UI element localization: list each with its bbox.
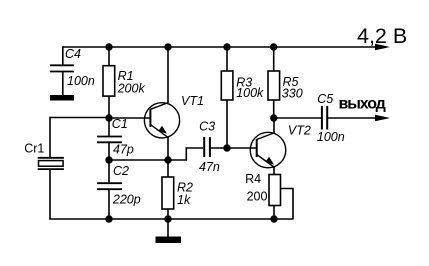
transistor VT2 emitter line xyxy=(257,155,274,168)
wire top supply rail xyxy=(63,46,383,48)
wire C1 to mid node xyxy=(108,142,110,160)
svg-text:C4: C4 xyxy=(65,47,81,61)
wire C4 to ground xyxy=(62,72,64,96)
svg-text:1k: 1k xyxy=(177,193,191,207)
resistor R1 xyxy=(103,66,115,96)
node dot rail/VT1 collector xyxy=(164,43,171,50)
transistor VT2 circle xyxy=(250,132,286,168)
capacitor C3 xyxy=(204,137,210,157)
resistor R4 xyxy=(269,175,281,206)
svg-text:VT1: VT1 xyxy=(181,94,204,108)
wire base node to VT1 base xyxy=(109,117,150,119)
transistor VT1 base bar xyxy=(149,109,151,127)
wire base node down to C1 xyxy=(108,118,110,137)
node dot rail/R3 xyxy=(223,43,230,50)
svg-text:100n: 100n xyxy=(317,130,345,144)
node dot R3/base junction xyxy=(223,144,230,151)
wire collector node to C5 xyxy=(274,117,321,119)
resistor R3 xyxy=(221,71,233,100)
wire C3 to VT2 base xyxy=(210,147,257,149)
resistor R2 xyxy=(162,177,174,209)
wire R1 branch from rail xyxy=(108,47,110,66)
VT2 emitter arrowhead xyxy=(265,157,274,165)
svg-text:C2: C2 xyxy=(113,164,129,178)
wire R5 to collector node xyxy=(273,100,275,118)
wire R2 to bottom rail xyxy=(167,209,169,219)
node dot R2/bottom rail xyxy=(164,215,171,222)
wire Cr1 to bottom rail xyxy=(50,169,109,219)
wire VT1 emitter down xyxy=(167,138,169,161)
ground bar main xyxy=(156,237,182,244)
wire R4 to bottom rail xyxy=(273,206,275,220)
wire mid node down to C2 xyxy=(108,160,110,183)
wire bottom rail to ground xyxy=(167,219,169,237)
capacitor C5 xyxy=(322,106,327,130)
svg-text:47n: 47n xyxy=(199,160,220,174)
wire C5 to output arrow xyxy=(327,117,383,119)
ground bar for C4 xyxy=(50,95,74,101)
node dot base node C1 xyxy=(105,114,112,121)
node dot VT2 collector xyxy=(270,114,277,121)
wire VT2 collector to node xyxy=(273,118,275,133)
wire C1/C2 junction to emitter node xyxy=(109,159,168,161)
node dot C1/C2 junction xyxy=(105,156,112,163)
wire crystal branch down to Cr1 xyxy=(49,117,51,158)
svg-text:C3: C3 xyxy=(199,120,215,134)
svg-text:100k: 100k xyxy=(236,86,264,100)
wire emitter node to R2 xyxy=(167,160,169,177)
wire R3 branch from rail xyxy=(226,47,228,71)
wire C4 branch from rail xyxy=(62,46,64,65)
svg-text:200k: 200k xyxy=(117,82,146,96)
node dot rail/R5 xyxy=(270,43,277,50)
svg-text:Cr1: Cr1 xyxy=(24,141,44,155)
transistor VT1 collector line xyxy=(150,103,168,110)
svg-text:330: 330 xyxy=(282,86,303,100)
svg-text:R4: R4 xyxy=(245,172,261,186)
R4 tap wire to bottom rail xyxy=(281,189,294,220)
svg-text:100n: 100n xyxy=(67,74,95,88)
wire R3 to base junction xyxy=(226,100,228,148)
capacitor C4 xyxy=(50,65,74,71)
svg-text:4,2 В: 4,2 В xyxy=(357,24,407,48)
wire bottom rail xyxy=(109,218,294,220)
crystal Cr1 xyxy=(38,158,64,169)
capacitor C1 xyxy=(97,137,122,143)
node dot emitter junction xyxy=(164,156,171,163)
transistor VT1 emitter line xyxy=(150,125,168,138)
svg-text:47p: 47p xyxy=(113,143,134,157)
wire C2 to bottom rail xyxy=(108,189,110,219)
wire emitter node to C3 (step) xyxy=(168,148,203,160)
svg-text:200: 200 xyxy=(247,190,268,204)
node dot R4/bottom rail xyxy=(270,215,277,222)
transistor VT2 collector line xyxy=(257,133,275,140)
output arrowhead xyxy=(375,115,390,122)
transistor VT1 circle xyxy=(144,103,179,138)
svg-text:220p: 220p xyxy=(112,193,141,207)
node dot C2/bottom rail xyxy=(105,215,112,222)
svg-text:C5: C5 xyxy=(317,92,333,106)
wire R1 to base node xyxy=(108,96,110,118)
capacitor C2 xyxy=(97,183,122,189)
resistor R5 xyxy=(268,71,280,100)
wire base node to crystal branch xyxy=(50,117,109,119)
wire VT2 emitter to R4 xyxy=(273,167,275,175)
svg-text:VT2: VT2 xyxy=(288,123,311,137)
wire R5 branch from rail xyxy=(273,47,275,71)
wire VT1 collector to rail xyxy=(167,47,169,103)
transistor VT2 base bar xyxy=(256,139,258,157)
svg-text:C1: C1 xyxy=(112,117,128,131)
supply arrowhead xyxy=(375,44,390,51)
VT1 emitter arrowhead xyxy=(158,126,167,134)
svg-text:выход: выход xyxy=(339,95,386,112)
node dot rail/R1 xyxy=(105,43,112,50)
